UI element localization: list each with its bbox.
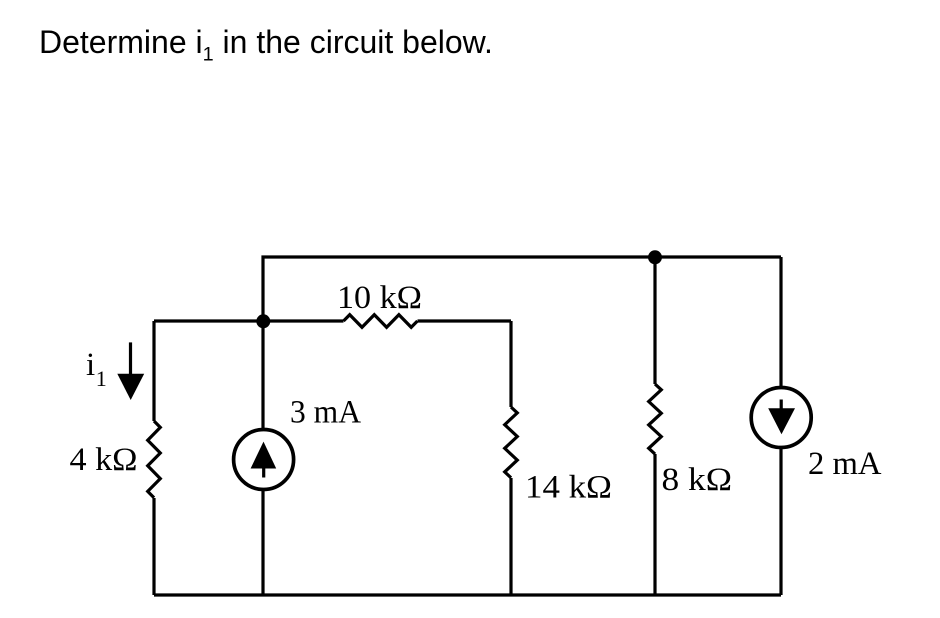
svg-text:i: i — [86, 347, 95, 383]
8k branch wires — [653, 257, 656, 595]
resistor R 10k zigzag — [344, 315, 418, 328]
svg-text:14 kΩ: 14 kΩ — [525, 470, 612, 506]
resistor R 8k zigzag — [649, 384, 662, 454]
3mA branch wires — [261, 321, 264, 595]
current source I2 2mA circle — [751, 388, 811, 448]
svg-text:2 mA: 2 mA — [808, 446, 882, 482]
wire left rail top — [154, 319, 344, 322]
title text — [39, 24, 493, 66]
svg-text:4 kΩ: 4 kΩ — [70, 442, 138, 478]
top rail wire — [263, 257, 781, 321]
14k branch wires — [509, 321, 512, 595]
resistor R 4k zigzag — [148, 421, 161, 498]
svg-text:10 kΩ: 10 kΩ — [337, 280, 422, 316]
current source I1 3mA circle — [234, 430, 294, 490]
node B dot at 655,257 — [648, 250, 662, 264]
2mA branch wires — [779, 257, 782, 595]
wire rail to 14k corner — [418, 319, 512, 322]
node A dot at 263,321 — [256, 314, 270, 328]
svg-text:8 kΩ: 8 kΩ — [662, 462, 733, 498]
arrow i1 current direction — [129, 342, 132, 376]
left branch wires — [152, 321, 155, 595]
resistor R 14k zigzag — [505, 407, 518, 478]
arrow down inside 2mA source — [780, 400, 783, 411]
arrow up inside 3mA source — [251, 442, 277, 469]
bottom rail wire — [154, 593, 781, 596]
svg-text:1: 1 — [96, 366, 107, 391]
svg-text:3 mA: 3 mA — [290, 395, 361, 431]
